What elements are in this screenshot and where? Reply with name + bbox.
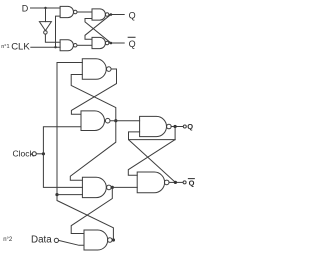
wire G4 out feedback up-left to G1 bbox=[57, 195, 113, 240]
wire G3 out to G6 bottom input bbox=[111, 186, 137, 188]
node Clock junction bbox=[42, 152, 45, 155]
node NAND3 output junction bbox=[110, 13, 113, 16]
wire G6 out to Qbar bbox=[169, 181, 183, 183]
node CLK junction bbox=[54, 46, 56, 48]
wire feedback NAND4 out to NAND3 bottom input bbox=[85, 19, 111, 44]
wire inverter output to NAND2 top input bbox=[45, 34, 60, 42]
connector circle Qbar bbox=[183, 181, 186, 184]
svg-text:D: D bbox=[22, 4, 29, 14]
wire G1 output down-around to G2 top input bbox=[71, 69, 116, 114]
wire G4 feedback riser to G1 top input bbox=[57, 63, 82, 195]
wire G5 feedback shallow diagonal to G6 top input bbox=[128, 140, 175, 176]
wire G6 feedback 45deg diagonal to G5 bottom input bbox=[129, 132, 176, 183]
svg-text:Q: Q bbox=[187, 122, 193, 131]
wire CLK riser to NAND1 bottom input bbox=[56, 16, 61, 47]
wire G5 out down to corner bbox=[174, 127, 176, 140]
wire D junction down to inverter bbox=[45, 8, 47, 22]
node G5 output junction bbox=[174, 125, 177, 128]
connector circle Clock bbox=[32, 152, 36, 156]
wire NAND4 out to Qbar bbox=[109, 42, 124, 44]
svg-text:n°1: n°1 bbox=[1, 44, 9, 50]
wire NAND2 out to NAND4 bottom input bbox=[77, 44, 92, 46]
wire G2 output feedback to G1 bottom input bbox=[71, 75, 116, 121]
svg-text:Q: Q bbox=[129, 39, 136, 49]
nand G2 bbox=[81, 111, 104, 131]
wire D to NAND1 top input bbox=[31, 7, 61, 9]
nand G3 bbox=[82, 177, 106, 197]
nand G6 bbox=[137, 172, 164, 193]
wire CLK bbox=[31, 46, 60, 48]
wire Clock to junction bbox=[36, 153, 43, 155]
svg-text:CLK: CLK bbox=[11, 41, 30, 52]
node G2 output junction bbox=[114, 119, 117, 122]
connector circle Data bbox=[54, 238, 58, 242]
wire horizontal at 139.6 bbox=[129, 139, 176, 141]
node NAND4 output junction bbox=[110, 42, 113, 45]
wire feedback NAND3 out to NAND4 top input bbox=[85, 15, 111, 40]
svg-text:Data: Data bbox=[31, 235, 52, 246]
nand G5 bbox=[140, 116, 167, 136]
node G4 output junction bbox=[112, 238, 115, 241]
wire G2 out down-diagonal to G3 top input bbox=[70, 121, 116, 181]
nand NAND1 bbox=[60, 6, 73, 17]
wire G3 bottom input bbox=[57, 194, 82, 196]
node D junction bbox=[44, 7, 46, 9]
connector circle Q bbox=[183, 125, 186, 128]
nand NAND2 bbox=[60, 40, 73, 51]
node junction G4 feedback to G3 bottom input bbox=[55, 193, 58, 196]
wire Data to G4 bottom input bbox=[59, 240, 85, 245]
wire NAND1 out to NAND3 top input bbox=[77, 11, 92, 13]
svg-text:Clock: Clock bbox=[13, 149, 35, 159]
nand NAND4 bbox=[92, 37, 105, 48]
wire Clock riser down to G3 middle input bbox=[43, 154, 82, 188]
wire G5 out to Q bbox=[171, 126, 183, 128]
node G6 output junction bbox=[174, 181, 177, 184]
svg-text:Q: Q bbox=[129, 10, 136, 20]
nand NAND3 bbox=[92, 9, 105, 20]
nand G1 bbox=[82, 59, 106, 80]
svg-text:n°2: n°2 bbox=[3, 237, 13, 243]
nand G4 bbox=[84, 230, 108, 250]
inverter U1 (triangle pointing down with bubble) bbox=[39, 22, 51, 31]
node G3 output junction bbox=[111, 186, 114, 189]
wire G2 out to G5 top input bbox=[110, 120, 140, 122]
wire Clock riser up to G2 bottom input bbox=[43, 127, 81, 154]
wire G3 out down to G4 top input bbox=[71, 187, 112, 233]
wire NAND3 out to Q bbox=[109, 14, 124, 16]
svg-text:Q: Q bbox=[189, 179, 195, 188]
